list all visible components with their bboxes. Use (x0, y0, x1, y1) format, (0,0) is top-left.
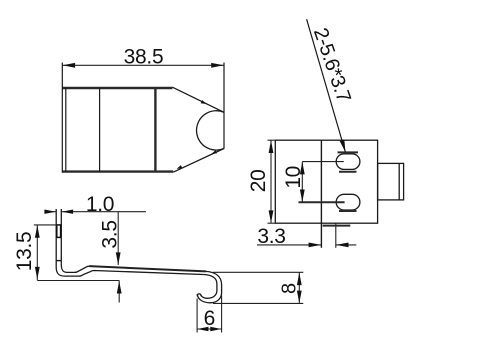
svg-text:3.3: 3.3 (257, 225, 285, 248)
svg-text:6: 6 (204, 307, 216, 330)
svg-text:1.0: 1.0 (86, 193, 114, 216)
svg-text:3.5: 3.5 (99, 220, 122, 248)
svg-text:20: 20 (247, 170, 270, 193)
svg-text:38.5: 38.5 (124, 46, 164, 69)
svg-text:2-5.6*3.7: 2-5.6*3.7 (309, 25, 355, 105)
svg-text:10: 10 (282, 166, 305, 188)
svg-text:13.5: 13.5 (13, 232, 36, 272)
svg-text:8: 8 (279, 283, 301, 294)
